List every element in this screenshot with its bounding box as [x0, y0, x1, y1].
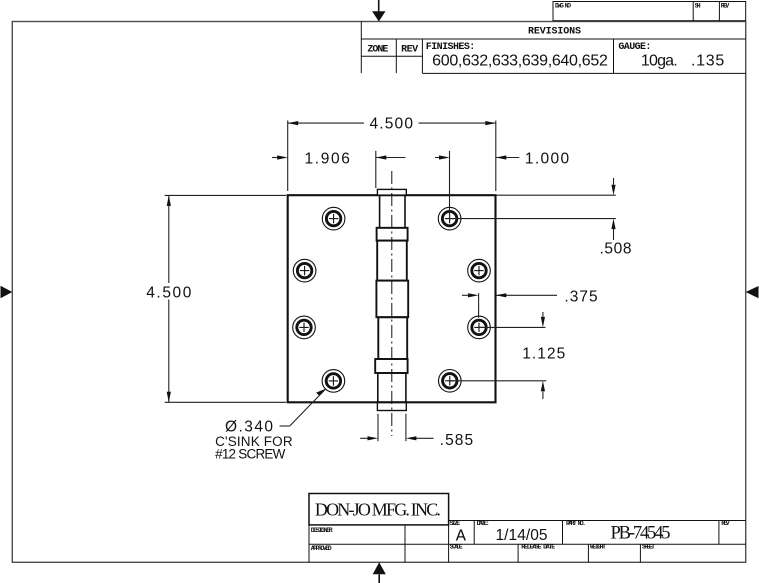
svg-text:SH: SH	[695, 2, 701, 9]
bottom centering fold arrow	[373, 562, 386, 583]
svg-text:REV: REV	[721, 520, 730, 527]
svg-text:.135: .135	[691, 53, 724, 70]
hinge plate outline	[288, 195, 496, 402]
screw hole L3	[293, 316, 316, 339]
barrel bottom tip	[377, 402, 406, 410]
svg-text:REV: REV	[721, 2, 730, 9]
svg-text:Ø.340: Ø.340	[225, 418, 273, 435]
svg-text:PART NO.: PART NO.	[566, 520, 586, 527]
svg-text:SIZE: SIZE	[450, 520, 461, 527]
svg-text:#12 SCREW: #12 SCREW	[215, 446, 286, 461]
svg-text:4.500: 4.500	[146, 285, 192, 302]
top strip dwg-no box	[553, 2, 746, 21]
hinge knuckle barrel	[375, 189, 408, 410]
knuckle K2	[377, 241, 407, 281]
bearing B1	[377, 228, 408, 241]
pin center line (dash-dot)	[391, 171, 393, 436]
title block texts	[311, 499, 730, 552]
svg-text:DWG NO: DWG NO	[555, 2, 571, 9]
dimension 1.125	[450, 312, 547, 399]
dimension .375	[462, 293, 557, 318]
screw hole R3	[468, 316, 491, 339]
screw hole L4	[322, 370, 345, 393]
svg-text:RELEASE DATE: RELEASE DATE	[521, 544, 555, 551]
svg-text:.508: .508	[600, 241, 632, 258]
screw hole L1	[322, 207, 345, 230]
svg-text:1.125: 1.125	[522, 346, 565, 363]
right portion top	[449, 520, 746, 522]
right centering fold arrow	[746, 286, 759, 298]
screw hole L2	[293, 259, 316, 282]
dimension .508	[450, 178, 616, 240]
svg-text:SHEET: SHEET	[642, 544, 655, 551]
screw hole R1	[438, 207, 461, 230]
dimension 1.906	[272, 151, 406, 188]
svg-text:PB-74545: PB-74545	[611, 524, 671, 544]
svg-text:.585: .585	[440, 432, 474, 449]
svg-text:REVISIONS: REVISIONS	[528, 27, 581, 38]
svg-text:1.906: 1.906	[305, 151, 350, 168]
barrel top tip	[377, 189, 406, 195]
dimension 4.500 left	[165, 195, 287, 402]
svg-text:REV: REV	[401, 45, 418, 56]
knuckle K5	[378, 373, 406, 402]
svg-text:ZONE: ZONE	[367, 45, 388, 56]
knuckle K1	[380, 195, 405, 228]
callout leader Ø.340 c'sink	[280, 389, 326, 426]
svg-text:600,632,633,639,640,652: 600,632,633,639,640,652	[432, 53, 608, 70]
svg-text:1.000: 1.000	[525, 151, 570, 168]
svg-text:FINISHES:: FINISHES:	[426, 42, 476, 53]
dimension 1.000	[435, 151, 519, 219]
svg-text:GAUGE:: GAUGE:	[618, 42, 651, 53]
left centering fold arrow	[1, 286, 13, 298]
screw hole R2	[468, 259, 491, 282]
don-jo logo box	[309, 494, 449, 525]
knuckle K3	[376, 281, 408, 318]
bearing B2	[375, 359, 407, 373]
svg-text:DESIGNER: DESIGNER	[311, 527, 333, 534]
title block	[309, 494, 746, 563]
left column rows	[308, 525, 310, 562]
top centering fold arrow	[372, 0, 385, 22]
svg-text:DATE:: DATE:	[477, 520, 490, 527]
knuckle K4	[378, 317, 407, 359]
dimension 4.500 top	[288, 121, 496, 192]
svg-text:APPROVED: APPROVED	[311, 545, 332, 552]
svg-text:.375: .375	[564, 288, 597, 305]
dimension .585	[360, 414, 434, 441]
screw hole R4	[439, 370, 462, 393]
svg-text:4.500: 4.500	[369, 115, 413, 132]
revisions table labels	[367, 27, 724, 70]
svg-text:1/14/05: 1/14/05	[496, 527, 548, 544]
svg-text:DON-JO MFG. INC.: DON-JO MFG. INC.	[315, 499, 441, 519]
svg-text:WEIGHT: WEIGHT	[590, 544, 606, 551]
svg-text:10ga.: 10ga.	[641, 53, 678, 70]
revisions table	[361, 22, 745, 74]
svg-text:A: A	[456, 527, 467, 546]
